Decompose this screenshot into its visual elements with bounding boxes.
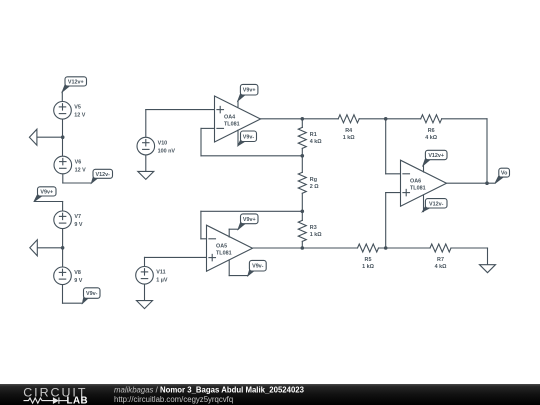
op-amp OA6 (401, 160, 447, 206)
flag V12v- (92, 169, 113, 183)
wire down to ground (487, 248, 489, 265)
wire R6 to fb corner (442, 118, 487, 120)
svg-text:http://circuitlab.com/cegyz5yr: http://circuitlab.com/cegyz5yrqcvfq (114, 395, 233, 404)
wire R1 bottom lead (301, 148, 303, 155)
wire OA6 + down (385, 193, 387, 248)
svg-text:V11: V11 (156, 270, 165, 276)
node R1/Rg (301, 154, 305, 158)
voltage source V6 (54, 156, 86, 174)
svg-text:R7: R7 (437, 257, 444, 263)
wire OA6 - up (385, 119, 387, 174)
svg-text:100 nV: 100 nV (158, 148, 176, 154)
wire OA5 out to R5 (253, 247, 358, 249)
node mid V5/V6 (61, 135, 65, 139)
wire to ground left (37, 136, 63, 138)
svg-text:OA4: OA4 (224, 114, 235, 120)
wire V5 to V6 (62, 119, 64, 156)
svg-text:V12v-: V12v- (96, 172, 111, 178)
op-amp OA5 (207, 225, 253, 271)
wire R3 top lead (301, 211, 303, 220)
ground (below V11) (137, 301, 153, 309)
wire OA5 fb to Rg/R3 (201, 210, 302, 212)
flag V9v- (left) (83, 288, 101, 303)
svg-text:4 kΩ: 4 kΩ (310, 139, 322, 145)
wire V11 to ground (144, 284, 146, 300)
node Rg/R3 (301, 210, 305, 214)
wire V10 up (145, 110, 147, 138)
resistor R5 (358, 244, 379, 270)
svg-text:TL081: TL081 (216, 251, 232, 257)
voltage source V5 (54, 102, 86, 120)
wire V9v+ to corner (34, 201, 63, 203)
wire to Rg (301, 156, 303, 173)
svg-text:OA6: OA6 (410, 179, 421, 185)
svg-text:OA5: OA5 (216, 244, 227, 250)
svg-text:V8: V8 (74, 270, 81, 276)
resistor R7 (430, 244, 451, 270)
svg-text:V5: V5 (74, 105, 81, 111)
wire fb down to out (486, 119, 488, 183)
svg-text:R5: R5 (365, 257, 372, 263)
svg-text:R3: R3 (310, 225, 317, 231)
CircuitLab logo (23, 386, 88, 405)
svg-text:1 kΩ: 1 kΩ (343, 135, 355, 141)
svg-text:V9v-: V9v- (252, 264, 264, 270)
wire OA6 out to Vo (447, 182, 496, 184)
node R3 bottom (301, 246, 305, 250)
svg-text:4 kΩ: 4 kΩ (425, 135, 437, 141)
wire to ground left 2 (37, 247, 62, 249)
svg-text:V10: V10 (158, 140, 168, 146)
resistor R4 (338, 115, 359, 141)
svg-text:V9v+: V9v+ (40, 189, 53, 195)
flag Vo (495, 168, 509, 183)
op-amp OA4 (215, 96, 261, 142)
voltage source V10 (137, 137, 175, 155)
wire OA4 V+ stub (237, 101, 239, 107)
svg-text:V9v+: V9v+ (243, 217, 256, 223)
wire R3 bottom lead (301, 241, 303, 248)
wire down to V7 (62, 202, 64, 211)
resistor R6 (421, 115, 442, 141)
flag V12v+ (OA6) (423, 150, 447, 165)
flag V12v+ (62, 77, 86, 92)
wire V10 to OA4 + (146, 109, 215, 111)
svg-text:1 µV: 1 µV (156, 278, 168, 284)
resistor Rg (298, 172, 319, 193)
wire R4 to R6 (359, 118, 421, 120)
svg-text:R6: R6 (428, 128, 435, 134)
svg-text:V9v-: V9v- (86, 291, 98, 297)
ground (left, branch V12) (29, 129, 37, 145)
svg-text:malikbagas / Nomor 3_Bagas Abd: malikbagas / Nomor 3_Bagas Abdul Malik_2… (114, 386, 305, 395)
svg-text:V6: V6 (75, 159, 82, 165)
svg-text:12 V: 12 V (75, 167, 86, 173)
wire OA5 V- stub h (229, 275, 248, 277)
wire V11 up (144, 257, 146, 266)
wire OA4 out to R4 (261, 118, 339, 120)
svg-text:4 kΩ: 4 kΩ (435, 264, 447, 270)
svg-text:V9v+: V9v+ (243, 88, 256, 94)
voltage source V7 (54, 211, 83, 229)
wire OA4 - in (201, 127, 215, 129)
svg-text:V12v+: V12v+ (428, 153, 444, 159)
wire V12v+ to V5 (61, 92, 63, 102)
ground (right) (480, 265, 496, 273)
wire OA4 fb down (200, 128, 202, 155)
svg-text:Rg: Rg (310, 177, 317, 183)
svg-text:R1: R1 (310, 132, 317, 138)
resistor R3 (298, 220, 322, 241)
wire OA6 - in (386, 173, 401, 175)
svg-text:12 V: 12 V (74, 113, 85, 119)
flag V9v+ (left) (34, 187, 56, 202)
wire OA5 fb up (200, 211, 202, 239)
wire OA6 V- stub (423, 195, 425, 212)
wire OA5 - in (201, 238, 207, 240)
wire OA4 V- stub (237, 130, 239, 145)
node mid V7/V8 (61, 246, 65, 250)
wire R7 to ground (451, 247, 488, 249)
svg-text:TL081: TL081 (410, 186, 426, 192)
wire V6 to V12v- (63, 182, 92, 184)
flag V9v- (OA5) (248, 260, 266, 275)
svg-text:R4: R4 (345, 128, 352, 134)
wire V11 to OA5 + (145, 256, 207, 258)
wire OA5 V+ stub h (229, 228, 238, 230)
wire OA4 fb to R1 (201, 155, 302, 157)
ground (below V10) (138, 171, 154, 179)
svg-text:1 kΩ: 1 kΩ (310, 232, 322, 238)
svg-text:Vo: Vo (501, 171, 508, 177)
node R4/R6 (OA6 -) (384, 117, 388, 121)
voltage source V11 (136, 267, 168, 285)
flag V12v- (OA6) (423, 199, 448, 212)
svg-text:9 V: 9 V (74, 222, 82, 228)
svg-text:9 V: 9 V (74, 278, 82, 284)
flag V9v+ (OA4) (238, 84, 258, 100)
wire OA6 V+ stub (423, 166, 425, 173)
svg-text:V9v-: V9v- (243, 134, 255, 140)
resistor R1 (298, 127, 322, 148)
svg-text:1 kΩ: 1 kΩ (362, 264, 374, 270)
flag V9v+ (OA5) (238, 214, 258, 229)
wire V7 to V8 (62, 229, 64, 267)
svg-text:V7: V7 (74, 214, 81, 220)
wire V8 down (62, 285, 64, 303)
wire Rg to node (301, 193, 303, 211)
wire OA6 + in (386, 192, 401, 194)
svg-text:V12v-: V12v- (429, 201, 444, 207)
wire OA5 V- stub (228, 260, 230, 276)
wire V10 to ground (145, 155, 147, 171)
svg-text:LAB: LAB (67, 395, 89, 405)
svg-text:V12v+: V12v+ (68, 79, 84, 85)
node output (485, 181, 489, 185)
voltage source V8 (54, 267, 83, 285)
node R1 top (301, 117, 305, 121)
node R5/R7 (OA6 +) (384, 246, 388, 250)
wire R5 to R7 (379, 247, 431, 249)
flag V9v- (OA4) (238, 131, 257, 146)
svg-text:TL081: TL081 (224, 121, 240, 127)
wire R1 top lead (301, 119, 303, 128)
wire V6 down (62, 174, 64, 183)
wire V8 to V9v- (63, 302, 83, 304)
ground (left, branch V9) (30, 240, 38, 256)
wire OA5 V+ stub (228, 229, 230, 237)
svg-text:2 Ω: 2 Ω (310, 184, 319, 190)
